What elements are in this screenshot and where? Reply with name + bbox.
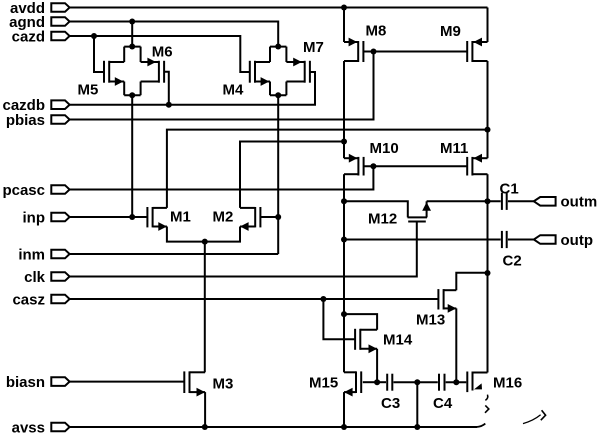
wire casz to M14 gate [323, 299, 355, 339]
svg-text:C2: C2 [503, 253, 522, 270]
junction outm / right column [485, 198, 491, 204]
junction cazd / M5 gate branch [91, 33, 97, 39]
port biasn [51, 377, 69, 386]
transmission gate M4/M7 [250, 47, 310, 96]
wire M15 gate lead [363, 381, 377, 383]
capacitor C4 [439, 374, 445, 391]
port avss [51, 423, 69, 432]
junction M5/M6 top node [129, 44, 135, 50]
wire outp row [344, 239, 501, 241]
junction M13 drain / right column [485, 270, 491, 276]
junction avss / M3 source [202, 424, 208, 430]
wire C2 to outp port [508, 239, 534, 241]
wire M8-M9 gate line [363, 51, 467, 53]
fragment arc near avss end [541, 410, 546, 420]
svg-text:pbias: pbias [6, 112, 45, 129]
wire storage node to C3 [377, 381, 386, 383]
port avdd [51, 3, 69, 12]
fragment arc below M16 [485, 405, 489, 412]
svg-text:inp: inp [23, 209, 46, 226]
port outp [534, 235, 556, 244]
wire pcasc to M10/M11 gates [70, 166, 374, 189]
transistor M9 [467, 38, 487, 62]
junction outp / mid column [341, 237, 347, 243]
wire M10 source [343, 142, 345, 159]
transistor M13 [438, 289, 456, 313]
wire M11 source [487, 130, 489, 159]
wire M10-M11 gate line [364, 165, 468, 167]
wire M5/M6 bottom node to inp [131, 95, 133, 217]
svg-text:M1: M1 [170, 209, 191, 226]
junction outm / mid column [341, 198, 347, 204]
wire mid column to M15 drain [343, 314, 345, 372]
svg-text:pcasc: pcasc [2, 182, 45, 199]
capacitor C2 [502, 231, 507, 248]
fragment arc at M16 channel bottom [485, 395, 487, 401]
transistor M12 [408, 201, 432, 221]
fragment swoosh right of blob [523, 415, 541, 424]
wire mid column outp-M14 node [343, 240, 345, 315]
junction cascode node M9-M1-M11 [485, 127, 491, 133]
wire M6 gate to cazdb [164, 72, 169, 105]
port cazd [51, 32, 69, 41]
port inp [51, 213, 69, 222]
junction inm riser / M2 gate [275, 214, 281, 220]
capacitor C3 [387, 374, 392, 391]
svg-text:outm: outm [561, 194, 598, 211]
transistor M11 [467, 154, 487, 176]
wire M1 drain to cascode node [167, 130, 488, 208]
svg-text:inm: inm [18, 246, 45, 263]
wire M9 drain to cascode node [487, 61, 489, 130]
junction avss / C3-C4 drop [414, 424, 420, 430]
svg-text:M15: M15 [309, 375, 338, 392]
wire right column M13 to M16 [487, 273, 489, 373]
wire C4 to M16 gate [446, 381, 467, 383]
junction pbias / M8-M9 gate line [371, 49, 377, 55]
svg-text:M8: M8 [366, 23, 387, 40]
wire pbias to M8/M9 gates [70, 52, 374, 120]
wire right column outm to M13 drain [487, 201, 489, 273]
port casz [51, 295, 69, 304]
wire M15 source to avss [343, 392, 345, 427]
wire C3/C4 node to avss [416, 382, 418, 427]
svg-text:casz: casz [12, 291, 45, 308]
svg-text:M7: M7 [303, 39, 324, 56]
port outm [534, 197, 556, 206]
wire agnd rail to M4/M7 top [70, 22, 279, 47]
wire M10 drain to outm node [343, 174, 345, 201]
junction M4/M7 top node [275, 44, 281, 50]
port cazdb [51, 100, 69, 109]
svg-text:outp: outp [561, 232, 593, 249]
svg-text:clk: clk [24, 269, 46, 286]
port pbias [51, 115, 69, 124]
junction mid node M8-M2-M10 [341, 139, 347, 145]
wire M2 gate lead [260, 216, 278, 218]
junction storage node M15 gate-C3-M14 [374, 379, 380, 385]
wire avdd rail [70, 7, 488, 9]
wire M14 source to storage node [376, 349, 378, 382]
transistor M14 [355, 329, 377, 353]
svg-text:M11: M11 [440, 140, 468, 157]
wire M4/M7 bottom node to M2 gate / inm [277, 95, 279, 254]
wire avss end hook (watermark remnant) [477, 424, 486, 427]
svg-text:M2: M2 [213, 209, 234, 226]
port clk [51, 272, 69, 281]
svg-text:C4: C4 [433, 395, 453, 412]
junction avdd / M8 source [341, 5, 347, 11]
wire M8 source to avdd [343, 8, 345, 43]
junction avss / M15 source [341, 424, 347, 430]
port pcasc [51, 185, 69, 194]
wire tail node [167, 227, 240, 242]
junction agnd / M5-M6 branch [129, 19, 135, 25]
transistor M16 [467, 372, 487, 393]
svg-text:M10: M10 [370, 140, 399, 157]
wire casz [70, 298, 439, 300]
svg-text:M5: M5 [78, 82, 99, 99]
port agnd [51, 17, 69, 26]
wire mid column outm-outp [343, 201, 345, 239]
svg-text:M14: M14 [383, 332, 413, 349]
wire M14 drain to mid node [344, 314, 377, 330]
svg-text:biasn: biasn [6, 374, 45, 391]
wire tail to M3 drain [204, 242, 206, 373]
wire M13 source down [455, 308, 457, 382]
wire clk to M12 gate [70, 222, 417, 277]
svg-text:cazd: cazd [12, 28, 45, 45]
junction M4/M7 bottom node [275, 92, 281, 98]
wire agnd branch to M5/M6 top node [131, 22, 133, 47]
junction tail node [202, 239, 208, 245]
transmission gate M5/M6 [104, 47, 164, 96]
capacitor C1 [502, 193, 507, 210]
wire C3 to C4 [394, 381, 438, 383]
port inm [51, 250, 69, 259]
svg-text:avss: avss [12, 419, 45, 436]
transistor M8 [344, 38, 363, 62]
wire outm right segment [427, 200, 501, 202]
svg-text:M16: M16 [493, 375, 522, 392]
wire M3 source to avss [204, 392, 206, 427]
wire M11 drain to outm row [487, 174, 489, 201]
svg-text:M13: M13 [416, 312, 445, 329]
junction inp / M1 gate [129, 214, 135, 220]
wire M9 source to avdd [487, 8, 489, 43]
junction C4 / M13 source / M16 gate [453, 379, 459, 385]
wire inp [70, 216, 148, 218]
svg-text:M4: M4 [223, 82, 244, 99]
wire C1 to outm port [508, 200, 534, 202]
wire biasn [70, 381, 185, 383]
wire M13 drain up to right column [456, 273, 487, 290]
transistor M15 [344, 371, 361, 396]
wire M8 drain to mid node [343, 61, 345, 142]
svg-text:C3: C3 [381, 395, 400, 412]
wire M2 drain to mid node [240, 142, 344, 208]
junction casz / M14 gate branch [320, 296, 326, 302]
wire cazdb to M7 gate [70, 72, 315, 105]
transistor M10 [344, 154, 364, 176]
transistor M2 [240, 207, 260, 231]
junction M5/M6 bottom node [129, 92, 135, 98]
junction pcasc / M10-M11 gate line [370, 163, 376, 169]
junction cazdb / M6 gate [166, 102, 172, 108]
svg-text:M3: M3 [213, 376, 234, 393]
wire avss rail [70, 426, 477, 428]
svg-text:M12: M12 [368, 211, 397, 228]
fragment M16 source arrow remnant [474, 383, 482, 389]
wire cazd to M4 gate [70, 36, 250, 72]
wire cazd branch to M5 gate [94, 36, 104, 72]
svg-text:M9: M9 [440, 23, 461, 40]
wire inm [70, 253, 279, 255]
svg-text:C1: C1 [500, 181, 519, 198]
junction C3-C4 / avss drop [414, 379, 420, 385]
transistor M1 [147, 207, 167, 231]
svg-text:M6: M6 [152, 44, 173, 61]
junction M14 drain / mid column [341, 311, 347, 317]
transistor M3 [184, 371, 205, 396]
wire outm left segment [344, 201, 408, 217]
